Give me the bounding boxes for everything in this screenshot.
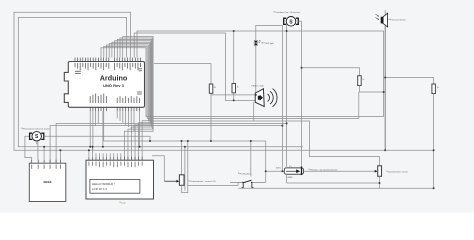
wire LED bottom down to piezo speaker terminal bbox=[255, 45, 257, 95]
wire module output to pot R8 with arrow bbox=[304, 170, 375, 172]
wire Arduino digital pin to LCD pin 14 bbox=[117, 39, 151, 160]
svg-text:ᴿ¹Pressure Sensor: ᴿ¹Pressure Sensor bbox=[389, 18, 406, 21]
LED D1 bbox=[254, 40, 261, 45]
junction node 5 bbox=[233, 99, 235, 101]
resistor R5 bbox=[358, 76, 362, 86]
wire loop from Arduino D-pin around left side (inner) bbox=[18, 17, 303, 146]
wire Arduino pin to right-side bus 2 bbox=[104, 46, 359, 118]
svg-text:Arduino: Arduino bbox=[100, 73, 128, 82]
junction node 2 bbox=[286, 30, 288, 32]
svg-text:ᴿ⁷LCD: ᴿ⁷LCD bbox=[120, 202, 126, 204]
wire R5 top link to speaker line bbox=[302, 68, 360, 76]
wire Arduino power pin down across buses bbox=[92, 111, 94, 150]
svg-text:ᴿ³: ᴿ³ bbox=[214, 87, 216, 90]
wire R4 top from top bus bbox=[233, 31, 235, 84]
svg-text:XBEE: XBEE bbox=[43, 180, 51, 184]
wire R6 bottom down to ground bus bbox=[433, 94, 435, 189]
wire R3 bottom to piezo speaker terminal 1 bbox=[211, 93, 255, 95]
potentiometer tap module U2 bbox=[276, 166, 304, 179]
wire loop from Arduino D-pin around left side (outer) bbox=[14, 12, 434, 150]
pushbutton S3 bbox=[230, 180, 266, 188]
wire module left terminal from button node bbox=[266, 170, 285, 172]
wire XBEE pin 6 up to bus bbox=[59, 150, 61, 159]
wire stub LCD pin 7 bbox=[109, 153, 111, 156]
junction node 13 bbox=[43, 146, 45, 148]
piezo loudspeaker LS1 bbox=[255, 89, 277, 107]
svg-text:ᴿ⁴: ᴿ⁴ bbox=[237, 87, 239, 89]
svg-text:UNO Rev 3: UNO Rev 3 bbox=[103, 83, 124, 88]
wire Arduino power pin to bus h3 bbox=[97, 111, 99, 123]
wire S2 right pin down through module bbox=[298, 21, 301, 166]
wire LCD pin 2 up to bus bbox=[91, 147, 93, 157]
wire second vertical to bus at pot R7 bbox=[187, 141, 189, 185]
resistor R3 bbox=[209, 84, 213, 93]
wire LCD pin 1 up to bus bbox=[88, 150, 90, 157]
wire R3 top from Arduino-right area bbox=[154, 64, 211, 84]
wire Arduino pin to right-side bus 3 bbox=[107, 45, 380, 166]
svg-text:S: S bbox=[289, 19, 293, 25]
XBEE radio module bbox=[29, 160, 66, 202]
resistor R6 bbox=[432, 84, 436, 94]
wire Arduino bottom pin to XBEE bus A bbox=[89, 111, 91, 147]
svg-text:HELLO WORLD !: HELLO WORLD ! bbox=[92, 182, 115, 186]
wire Arduino digital pin to LCD pin 12 bbox=[112, 42, 150, 160]
svg-text:ᴿ¹Piezoelectric (vib) not show: ᴿ¹Piezoelectric (vib) not shown bbox=[22, 127, 51, 130]
wire S2 left pin down through module to GND bus bbox=[286, 24, 288, 168]
junction node 24 bbox=[384, 149, 386, 151]
junction node 9 bbox=[187, 140, 189, 142]
wire stub LCD pin 8 bbox=[113, 153, 115, 156]
wire LED top to speaker bus bbox=[256, 25, 283, 171]
wire bus from XBEE pin 4 to module-left junction bbox=[50, 126, 282, 164]
junction node 6 bbox=[286, 122, 288, 124]
junction node 25 bbox=[265, 170, 267, 172]
wire Arduino analog pin A5 down to bundle line bbox=[130, 111, 132, 129]
wire Arduino analog pin A1 down to bundle line bbox=[119, 111, 121, 121]
wire stub LCD pin 6 bbox=[106, 153, 108, 156]
wire R4 bottom to piezo terminal 2 line bbox=[233, 93, 235, 101]
junction node 7 bbox=[281, 125, 283, 127]
potentiometer sensor R8 bbox=[378, 166, 382, 177]
wire XBEE pin 2 to piezo S1 bottom terminal bbox=[37, 141, 39, 160]
junction node 26 bbox=[281, 170, 283, 172]
wire Arduino bottom pin to horizontal bus at 141 bbox=[104, 111, 266, 182]
wire from S1 right terminal to bus corner bbox=[44, 136, 150, 141]
wire vertical hugging pot R7 bbox=[184, 147, 186, 191]
wire Arduino bottom pin to XBEE bus B bbox=[102, 111, 104, 147]
wire Arduino digital pin to LCD pin 13 bbox=[115, 41, 151, 160]
Arduino UNO Rev 3 board U1 bbox=[64, 58, 144, 111]
wire Arduino digital pin to LCD pin 11 bbox=[109, 44, 149, 161]
wire stub LCD pin 9 bbox=[116, 153, 118, 156]
svg-text:ᴿ² ᴿ LED light: ᴿ² ᴿ LED light bbox=[262, 42, 275, 45]
junction node 10 bbox=[149, 140, 151, 142]
wire Arduino analog pin A4 down to bundle line bbox=[127, 111, 129, 127]
resistor R4 bbox=[232, 84, 236, 93]
wire R6 top link to pressure-sensor line bbox=[385, 78, 433, 85]
wire from S1 bottom terminal down bbox=[36, 141, 38, 144]
svg-text:ᴿ⁶: ᴿ⁶ bbox=[437, 88, 439, 90]
wire stub LCD pin 4 bbox=[99, 153, 101, 156]
wire Arduino analog pin A0 down to bundle line bbox=[116, 111, 118, 118]
wire stub LCD pin 5 bbox=[102, 153, 104, 156]
junction node 16 bbox=[139, 146, 141, 148]
piezo buzzer S1 (vibration, not shown) bbox=[30, 132, 44, 141]
junction node 11 bbox=[250, 140, 252, 142]
wire module GND terminal down to bus bbox=[286, 174, 288, 183]
wire from bus down to pushbutton label area bbox=[250, 141, 252, 177]
wire pot R7 bottom loop bbox=[182, 185, 188, 192]
wire Arduino digital pin to LCD pin 15 bbox=[120, 38, 152, 160]
svg-text:ᴿ⁰Overdoor Cap - (Pressure): ᴿ⁰Overdoor Cap - (Pressure) bbox=[274, 11, 301, 14]
svg-text:ᴿ⁸potentiometer sensor: ᴿ⁸potentiometer sensor bbox=[387, 170, 409, 173]
wire pot R8 bottom to ground bus bbox=[379, 176, 381, 188]
wire stub LCD pin 10 bbox=[120, 153, 122, 156]
junction node 12 bbox=[210, 140, 212, 142]
wire top bus 2 from Arduino down to piezo speaker terminal 2 bbox=[134, 33, 255, 100]
wire XBEE pin 3 up to bus bbox=[43, 147, 45, 160]
junction node 17 bbox=[184, 146, 186, 148]
wire top bus from Arduino to pressure-sensor line bbox=[137, 31, 384, 117]
junction node 18 bbox=[91, 146, 93, 148]
wire R3 bottom down to bus h5 bbox=[210, 95, 212, 141]
wire Arduino pin to right-side bus 1 bbox=[101, 48, 384, 117]
page background below canvas bbox=[0, 213, 474, 231]
wire Arduino bottom pin right to bus bbox=[139, 111, 141, 147]
junction node 4 bbox=[255, 94, 257, 96]
svg-text:ᴿ⁵Pushbutton ₓₓ: ᴿ⁵Pushbutton ₓₓ bbox=[238, 172, 253, 175]
wire bottom ground bus bbox=[238, 187, 433, 189]
junction node 15 bbox=[102, 146, 104, 148]
svg-text:ᴿ⁶Potentiometer - contra LCD: ᴿ⁶Potentiometer - contra LCD bbox=[189, 180, 217, 183]
wire Arduino analog pin A2 down to bundle line bbox=[122, 111, 124, 123]
wire Arduino power pin to bus h4 bbox=[95, 111, 97, 126]
junction node 22 bbox=[383, 91, 385, 93]
wire bus from XBEE pin 5 to module junction bbox=[56, 123, 287, 163]
LCD 16 X 2 display module bbox=[86, 157, 154, 199]
wire pot R7 wiper wire to LCD bbox=[152, 156, 164, 181]
wire Arduino digital pin to LCD pin 16 bbox=[123, 37, 153, 161]
wire pot R7 top terminal up to bus bbox=[181, 141, 183, 175]
junction node 20 bbox=[88, 149, 90, 151]
wire R5 bottom to pressure-sensor line bbox=[360, 86, 384, 93]
svg-text:5VDC: 5VDC bbox=[276, 168, 282, 170]
wire pressure sensor vertical line bbox=[384, 26, 386, 151]
junction node 27 bbox=[379, 182, 381, 184]
wire stub LCD pin 3 bbox=[95, 153, 97, 156]
loudspeaker S2 (overdoor cap pressure) bbox=[284, 17, 299, 27]
svg-text:ᴿ⁵: ᴿ⁵ bbox=[363, 80, 365, 82]
svg-text:PIEZOₓₓ Spkr: PIEZOₓₓ Spkr bbox=[252, 85, 265, 88]
junction node 19 bbox=[59, 149, 61, 151]
potentiometer R7 (LCD contrast) bbox=[164, 175, 184, 186]
pressure sensor B1 bbox=[375, 10, 387, 27]
arrowhead into pot R8 bbox=[375, 170, 378, 173]
wire Arduino analog pin A6 down to bundle line bbox=[133, 111, 135, 131]
junction node 23 bbox=[384, 77, 386, 79]
wire piezo bottom stub to bus bbox=[253, 102, 255, 121]
wire Arduino analog pin A3 down to bundle line bbox=[125, 111, 127, 125]
junction node 3 bbox=[301, 67, 303, 69]
junction node 21 bbox=[433, 149, 435, 151]
svg-text:GND: GND bbox=[288, 177, 293, 179]
junction node 28 bbox=[433, 187, 435, 189]
wire XBEE pin 1 to piezo S1 left terminal bbox=[25, 136, 32, 159]
wire pot R7 bottom node to pushbutton bbox=[188, 182, 242, 185]
wire module GND bus bbox=[287, 182, 380, 184]
svg-text:LCD 16 X 2: LCD 16 X 2 bbox=[92, 187, 107, 191]
junction node 8 bbox=[181, 140, 183, 142]
junction node 1 bbox=[233, 30, 235, 32]
junction node 14 bbox=[89, 146, 91, 148]
